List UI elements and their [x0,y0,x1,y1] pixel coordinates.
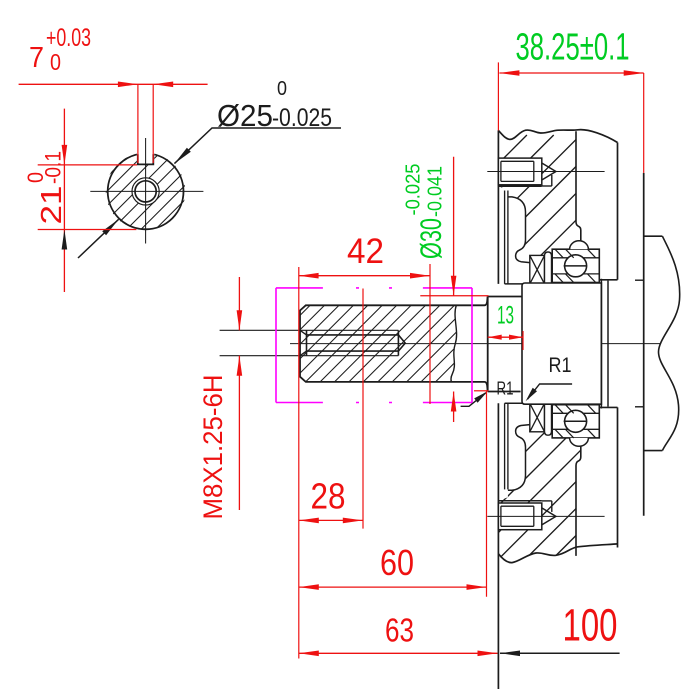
⌀30 dim line lower [453,392,455,423]
lower ball bearing [552,405,599,447]
circle view vertical centerline [145,138,147,244]
svg-text:-0.025: -0.025 [403,164,425,216]
upper stud white mask [498,158,541,185]
main shaft centerline [290,343,660,345]
crankcase bottom silhouette [498,544,617,563]
lower stud white mask [498,503,541,530]
dimension 42 arrow right [410,273,430,279]
M8 arrow upper [237,310,243,330]
dimension 60 arrow left [299,584,319,590]
upper boss ledge [498,185,541,187]
dimension 60 arrow right [467,584,487,590]
bearing inner ring [522,283,601,404]
svg-text:60: 60 [380,542,414,583]
fillet R1 lower text [497,379,514,399]
svg-text:M8X1.25-6H: M8X1.25-6H [198,375,228,520]
⌀30 dim arrow upper [451,276,457,296]
svg-text:0: 0 [50,49,61,75]
upper stud centerline [487,171,604,173]
upper stud inner verticals [501,161,534,181]
upper stud cone [542,163,556,180]
lower stud centerline [487,515,604,517]
thread hole major line top [220,329,399,331]
svg-text:Ø30: Ø30 [415,218,448,259]
thread entry chamfer top [300,330,307,335]
label ⌀30 with tolerance rotated (green) [403,164,449,260]
dimension 13 extension [522,331,524,350]
dimension 100 text (red) [563,600,618,651]
dimension 21 text rotated [23,151,68,225]
drill cone point [398,335,405,351]
crank flange bottom edge [644,450,663,452]
upper stud thread bottom [501,180,534,182]
dimension 21 arrow top [62,145,68,165]
dimension 7 arrow left [118,82,138,88]
upper bearing boss pillar [576,131,581,242]
svg-text:+0.03: +0.03 [46,24,91,52]
shaft ⌀25 outline [300,297,488,392]
seal housing verticals lower [505,403,508,489]
dimension 7 arrow right [153,82,173,88]
thread hole circle (minor) [135,181,156,202]
upper oil seal box [530,255,545,284]
keyway notch white mask [137,149,154,164]
lower stud thread top [501,505,534,507]
dimension 7 extension right [152,84,154,163]
svg-text:R1: R1 [549,354,572,377]
lower boss step line [542,501,552,512]
dimension 28 text [311,476,346,517]
thread hole minor line top [307,334,399,336]
crankcase face extension (red) [497,62,499,130]
svg-text:-0.041: -0.041 [425,166,447,217]
⌀30 dim line upper [453,157,455,296]
M8 dimension line upper [238,277,240,330]
thread hole circle (major) [132,178,159,205]
⌀30 journal bottom edge [488,391,521,393]
diameter 25 leader arrow upper [174,148,190,164]
dimension 21 extension bottom [38,229,137,231]
crank flange top edge [644,235,663,237]
diameter 25 leader line [78,128,341,258]
svg-text:-0.1: -0.1 [41,151,66,184]
fillet R1 upper arrow [526,388,537,402]
dimension 63 line [299,652,498,654]
bearing shoulder lower [600,406,618,408]
lower bearing boss pillar [576,445,581,556]
M8 dimension line lower [238,356,240,510]
seal housing S-profile lower [508,425,530,491]
⌀30 bottom edge extension [474,390,489,392]
dimension 38.25 text (green) [516,27,630,69]
thread entry chamfer bottom [300,351,307,356]
dimension 63 text [385,612,414,649]
dimension 38.25 line [499,72,643,74]
shaft step to ⌀30 [487,297,489,392]
svg-text:13: 13 [497,302,514,330]
crankcase face line lower [497,403,499,689]
upper seal lip [545,252,552,284]
shaft section hatch [298,303,460,384]
dimension 13 line [488,336,523,338]
dimension 21 arrow bottom (black) [62,230,68,250]
dimension 7 line [19,83,208,85]
svg-text:42: 42 [347,232,384,271]
shaft face extension line [298,267,300,659]
lower stud outline [498,503,541,530]
crankcase upper hatch [500,135,584,262]
ring face line [600,279,602,409]
fillet R1 upper text [549,354,572,377]
lower stud cone [542,508,556,525]
⌀30 journal top edge [488,296,522,298]
seal housing ledge upper [505,283,530,285]
crankcase face line upper [497,130,499,284]
shaft cross-section outer circle ⌀25 [108,154,184,230]
svg-text:100: 100 [563,600,618,651]
seal housing ledge lower [505,402,530,404]
dimension 13 arrow left [488,335,502,340]
thread entry line [306,330,308,355]
dimension 42 right extension [429,264,431,404]
M8 arrow lower [237,356,243,376]
upper stud outline [498,158,541,185]
gap face line [607,281,609,407]
svg-text:63: 63 [385,612,414,649]
⌀30 dim arrow lower [451,392,457,412]
dimension 28 arrow right [343,518,363,524]
dimension 28 line [299,519,363,521]
label M8X1.25-6H rotated [198,375,228,520]
thread end line [397,330,399,355]
dimension 38.25 arrow left [499,70,519,76]
fillet R1 lower leader [461,393,486,407]
crankcase inner wall lower [617,407,619,547]
crankcase lower hatch [496,401,584,561]
dimension 7 text [29,24,91,75]
keyway notch outline [138,154,154,164]
dimension 42 arrow left [299,273,319,279]
lower oil seal box [530,403,545,432]
svg-text:21: 21 [36,186,68,225]
shaft section wavy break line [451,305,457,382]
dimension 100 line (black) [500,652,620,654]
svg-text:38.25±0.1: 38.25±0.1 [516,27,630,69]
dimension 21 extension top [38,164,137,166]
magenta reference box [276,288,472,403]
lower boss ledge [498,500,541,502]
dimension 21 line [63,109,65,292]
fillet R1 lower arrow [474,391,488,402]
diameter 25 leader arrow lower [102,219,118,235]
upper stud thread top [501,160,534,162]
label ⌀25 with tolerance [217,78,332,133]
svg-text:28: 28 [311,476,346,517]
dimension 13 arrow right [509,335,523,340]
dimension 63 arrow right [478,651,498,657]
thread hole minor line bottom [307,350,399,352]
upper ball bearing [552,241,599,283]
dimension 28 arrow left [299,518,319,524]
circle view horizontal centerline [90,190,203,192]
lower seal lip [545,403,552,435]
dimension 63 arrow left [299,651,319,657]
crankcase top silhouette [498,130,617,143]
dimension 28 right extension [362,289,364,529]
lower stud inner verticals [501,506,534,526]
dimension 60 text [380,542,414,583]
bearing shoulder upper [600,279,618,281]
svg-text:Ø25: Ø25 [217,98,273,133]
fillet R1 upper leader [528,384,573,399]
dimension 13 text (green) [497,302,514,330]
upper boss step line [542,175,552,186]
thread hole major line bottom [220,355,399,357]
svg-text:7: 7 [29,42,44,74]
shoulder stub lower [635,406,644,408]
svg-text:-0.025: -0.025 [272,104,332,132]
dimension 38.25 arrow right [624,70,644,76]
dimension 42 text [347,232,384,271]
dimension 7 extension left [137,84,139,163]
dimension 100 arrow (black) [500,651,520,657]
crank cheek face [643,173,645,516]
dimension 60 right extension [486,391,488,597]
svg-text:0: 0 [277,78,287,100]
shoulder stub upper [635,279,644,281]
crankcase inner wall upper [617,143,619,280]
crank cheek face (red ext part) [643,73,645,173]
dimension 42 line [299,275,430,277]
cross-section hatch [105,150,190,232]
seal housing verticals upper [505,191,508,284]
dimension 60 line [299,586,487,588]
⌀30 top edge extension [420,295,488,297]
seal housing S-profile upper [508,197,530,263]
svg-text:R1: R1 [497,379,514,399]
flange break wavy line [659,236,680,450]
lower stud thread bottom [501,525,534,527]
